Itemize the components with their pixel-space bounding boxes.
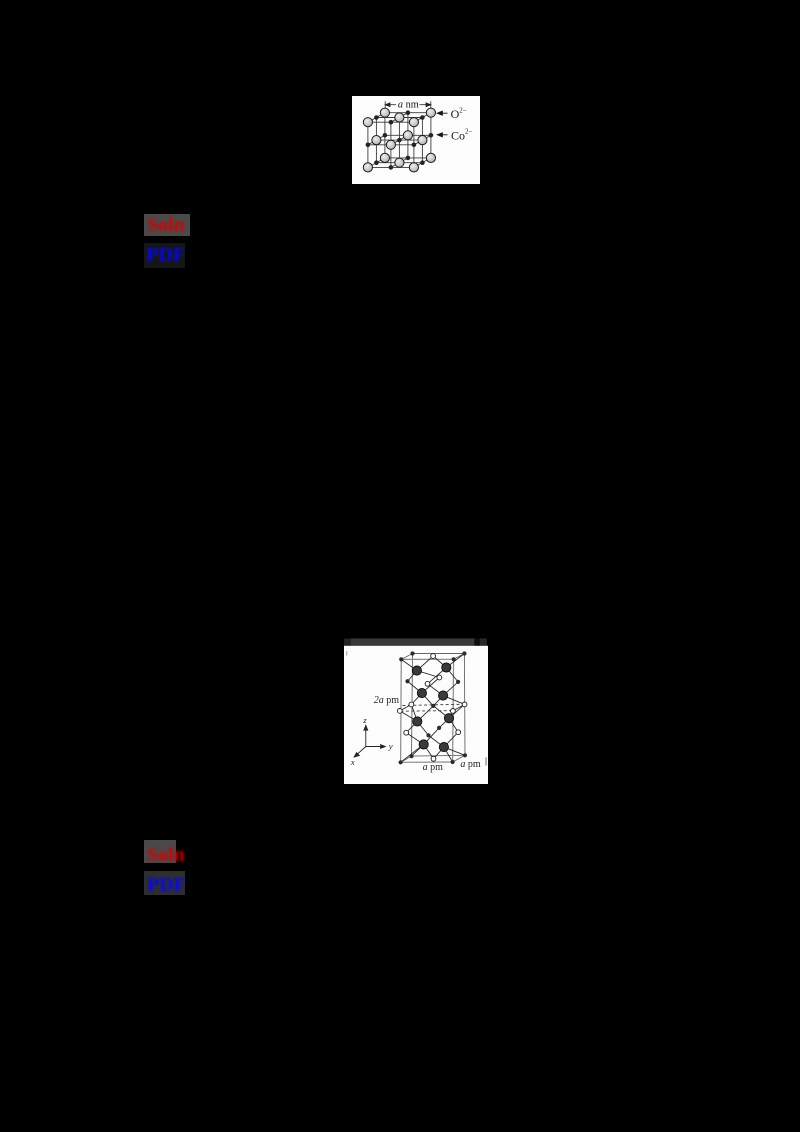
axes x y z bbox=[354, 725, 385, 757]
svg-text:y: y bbox=[388, 741, 393, 751]
label arrow: Co2+ bbox=[437, 133, 447, 137]
svg-text:z: z bbox=[362, 715, 367, 725]
atoms: small filled bbox=[399, 657, 403, 661]
atoms: O2- large spheres, Co2+ small spheres bbox=[380, 153, 389, 162]
svg-text:a nm: a nm bbox=[398, 100, 419, 111]
link: red Soln (top) bbox=[144, 214, 190, 236]
link: blue PDF (bottom) bbox=[144, 871, 185, 895]
wire: unit cell front edges bbox=[401, 659, 454, 762]
link: blue PDF (top) bbox=[144, 243, 185, 268]
wire: unit cell back edges bbox=[401, 654, 465, 763]
svg-text:x: x bbox=[350, 757, 355, 767]
svg-text:a pm: a pm bbox=[460, 759, 481, 770]
scan specks bbox=[346, 651, 347, 656]
atoms: open circles bbox=[431, 654, 436, 659]
wire: dashed mid-plane bbox=[401, 704, 465, 711]
svg-text:a pm: a pm bbox=[423, 762, 444, 773]
dimension line: a nm bbox=[385, 101, 431, 108]
label arrow: O2- bbox=[437, 111, 447, 115]
figure 2: tetragonal unit cell with scan bar bbox=[344, 638, 488, 784]
atoms: large filled bbox=[412, 666, 421, 675]
figure 1: CoO rock-salt unit cell bbox=[352, 96, 480, 184]
link: red Soln (bottom) bbox=[144, 840, 176, 863]
scan bar bbox=[344, 639, 351, 646]
wire: bond lines bbox=[400, 654, 465, 763]
wire: lattice grid lines bbox=[368, 113, 431, 168]
svg-text:2a pm: 2a pm bbox=[374, 695, 400, 706]
